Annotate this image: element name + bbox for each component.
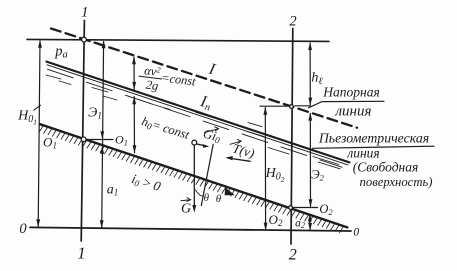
h0 dimension arrowheads: [132, 96, 136, 104]
node: center of gravity: [192, 140, 197, 145]
E2 dimension arrowheads: [308, 113, 312, 121]
svg-text:линия: линия: [335, 104, 372, 120]
T arrowhead: [225, 156, 232, 160]
slope angle triangle marker: [225, 187, 235, 195]
dimension h_t line: [309, 43, 311, 105]
top initial energy horizontal line: [27, 39, 329, 41]
Gi0 component arrow line: [197, 144, 207, 146]
dimension alpha-v2/2g line: [133, 57, 135, 90]
dimension h0 line: [133, 97, 135, 153]
H01 label leader: [34, 105, 41, 110]
svg-text:(Свободная: (Свободная: [353, 160, 419, 175]
svg-text:1: 1: [77, 244, 86, 263]
G arrowhead: [192, 205, 196, 213]
svg-text:Напорная: Напорная: [322, 85, 379, 100]
svg-text:G: G: [181, 202, 191, 217]
h_t dimension arrowheads: [308, 42, 312, 50]
datum line 0-0: [30, 227, 351, 231]
H01 dimension arrowheads: [38, 40, 42, 48]
svg-text:поверхность): поверхность): [360, 175, 433, 189]
O2 horizontal segment: [293, 207, 318, 209]
a2 dimension arrowheads: [308, 213, 312, 221]
napornaya level left segment: [260, 105, 289, 107]
node O2: [289, 206, 293, 210]
dimension a2 line: [309, 214, 311, 230]
alpha-v2/2g dimension arrowheads: [132, 56, 136, 64]
E1/a1 dimension arrowheads: [102, 40, 106, 48]
section line 1: [81, 21, 84, 242]
free surface main line: [47, 62, 350, 163]
T overbar: [230, 141, 241, 144]
free surface third dashed line: [48, 69, 343, 167]
node: section1 on energy line: [82, 37, 87, 42]
svg-text:θ: θ: [204, 192, 210, 204]
G vector bar: [181, 200, 190, 201]
gravity vector G line: [193, 145, 195, 209]
friction force T arrow line: [228, 158, 250, 161]
dimension H01 line: [38, 41, 40, 227]
node circles: [81, 37, 293, 209]
theta arc: [196, 190, 204, 196]
napornaya label leader: [295, 101, 384, 108]
piezometric label leader: [313, 146, 435, 148]
section line 2: [291, 29, 293, 245]
Gi0 overbar: [205, 129, 219, 133]
svg-text:θ: θ: [216, 193, 222, 205]
svg-text:Пьезометрическая: Пьезометрическая: [318, 131, 429, 146]
free surface second line: [47, 65, 348, 165]
ground hatching: [39, 126, 343, 233]
Gi0 arrowhead: [203, 144, 210, 148]
svg-text:0: 0: [353, 227, 359, 239]
H02 dimension arrowheads: [263, 107, 267, 115]
normal component line: [201, 144, 213, 205]
channel bottom line: [40, 124, 347, 227]
node: section2 on energy line: [290, 105, 294, 109]
svg-text:2g: 2g: [145, 78, 159, 93]
label alpha v^2 / 2g = const: [137, 63, 198, 98]
node O1: [81, 137, 86, 142]
dimension E1/a1 line: [102, 42, 104, 228]
svg-text:1: 1: [81, 5, 89, 21]
dimension E2 line: [309, 114, 311, 207]
water texture dashes: [46, 75, 340, 169]
svg-text:линия: линия: [346, 146, 379, 161]
svg-text:0: 0: [19, 221, 27, 237]
dashed energy (napornaya) line I: [51, 29, 357, 128]
svg-text:2: 2: [289, 14, 296, 30]
svg-text:2: 2: [289, 247, 297, 264]
O1 horizontal segment: [87, 139, 114, 141]
dimension H02 line: [264, 108, 266, 230]
